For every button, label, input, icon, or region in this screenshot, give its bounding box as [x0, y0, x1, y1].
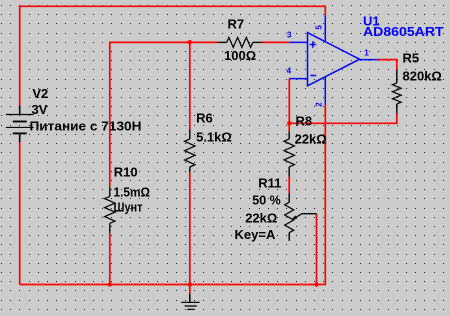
wire R8 top	[288, 123, 290, 131]
wire R7 right to opamp pin3	[262, 41, 289, 43]
wire opamp output to R5 top	[378, 60, 397, 71]
battery V2	[6, 106, 34, 142]
svg-text:Key=A: Key=A	[235, 227, 276, 242]
wire bottom rail	[20, 284, 317, 286]
wire opamp pin2 down to bottom rail	[317, 105, 326, 285]
svg-text:1.5mΩ: 1.5mΩ	[114, 185, 151, 200]
svg-text:3V: 3V	[32, 102, 48, 117]
ground	[181, 294, 199, 310]
svg-text:22kΩ: 22kΩ	[295, 132, 327, 147]
svg-text:V2: V2	[32, 86, 48, 101]
svg-text:Питание с 7130Н: Питание с 7130Н	[30, 119, 142, 134]
wire R6 bottom to bottom rail	[189, 172, 191, 285]
wire ground stub	[189, 285, 191, 294]
svg-text:R5: R5	[403, 51, 420, 66]
svg-text:100Ω: 100Ω	[224, 48, 256, 63]
junction bottom rail right end	[314, 282, 318, 286]
wire opamp pin4 feedback down	[288, 79, 290, 124]
svg-text:R7: R7	[228, 16, 245, 31]
wire feedback node to R5 bottom	[289, 114, 397, 124]
svg-text:AD8605ART: AD8605ART	[363, 24, 444, 39]
op-amp U1	[289, 15, 378, 104]
svg-text:2: 2	[314, 102, 323, 107]
svg-text:Шунт: Шунт	[114, 199, 143, 214]
wire top rail from battery+ to opamp pin5	[20, 6, 326, 105]
resistor R10 shunt	[105, 187, 115, 233]
R11 wiper arrow	[295, 214, 317, 218]
svg-text:R8: R8	[296, 114, 313, 129]
resistor R6	[185, 129, 195, 172]
svg-text:22kΩ: 22kΩ	[245, 211, 277, 226]
resistor R7	[218, 37, 262, 47]
junction R10 bottom rail	[108, 282, 112, 286]
wire R6 branch top	[189, 42, 191, 129]
svg-text:R11: R11	[258, 175, 281, 190]
junction R7/R6 node	[188, 40, 192, 44]
wire R10 bottom to bottom rail	[109, 233, 111, 285]
svg-text:5: 5	[314, 25, 323, 30]
svg-text:4: 4	[287, 66, 292, 75]
svg-text:R10: R10	[114, 164, 138, 179]
svg-text:R6: R6	[196, 110, 213, 125]
resistor R5	[393, 70, 402, 113]
svg-text:820kΩ: 820kΩ	[403, 68, 442, 83]
potentiometer R11	[285, 193, 294, 240]
wire sense node: R10 top to R7 left	[110, 42, 218, 187]
wire battery negative to bottom rail	[19, 142, 21, 284]
svg-text:50 %: 50 %	[252, 193, 281, 208]
junction ground bottom rail	[188, 282, 192, 286]
wire R8 bottom to R11 top	[288, 177, 290, 194]
junction feedback node	[287, 121, 291, 125]
resistor R8	[284, 131, 294, 176]
wire R11 wiper down to bottom rail	[316, 214, 318, 285]
svg-text:3: 3	[287, 31, 292, 40]
svg-text:5.1kΩ: 5.1kΩ	[196, 129, 232, 144]
svg-text:1: 1	[364, 49, 369, 58]
